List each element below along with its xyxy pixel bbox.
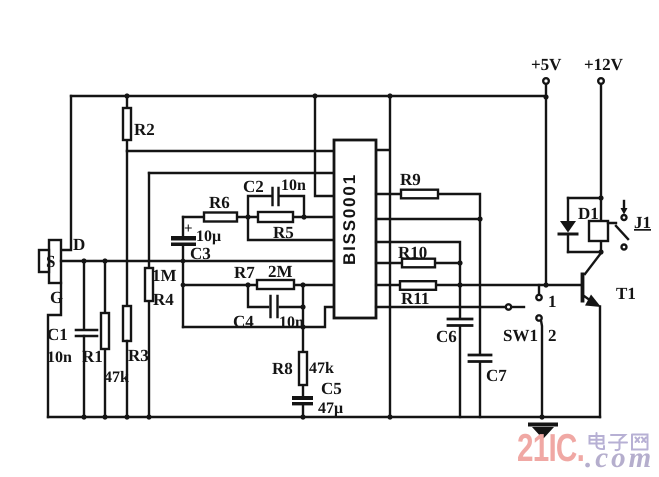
svg-text:+12V: +12V	[584, 55, 624, 74]
diode D1	[559, 198, 599, 252]
svg-text:R4: R4	[153, 290, 174, 309]
wire R7 row	[183, 284, 334, 286]
svg-text:C7: C7	[486, 366, 507, 385]
resistor R3	[123, 306, 149, 417]
node +5V terminal	[531, 55, 562, 285]
svg-text:SW1: SW1	[503, 326, 538, 345]
svg-text:10n: 10n	[279, 314, 304, 331]
watermark 21IC.com logo	[517, 427, 654, 474]
svg-text:R8: R8	[272, 359, 293, 378]
wire rail2 to IC	[127, 150, 334, 152]
svg-text:R7: R7	[234, 263, 255, 282]
resistor R2	[123, 96, 155, 151]
wire from top rail down into IC pin	[315, 96, 334, 196]
resistor R6	[183, 193, 248, 222]
svg-text:R3: R3	[128, 346, 149, 365]
svg-text:+: +	[184, 221, 193, 237]
capacitor C7	[469, 219, 507, 417]
resistor R7 2M	[234, 262, 294, 289]
transistor T1	[581, 253, 636, 417]
svg-text:47k: 47k	[309, 360, 334, 377]
wire IC pin to switch pole	[376, 306, 505, 308]
svg-text:1M: 1M	[152, 266, 177, 285]
svg-text:R1: R1	[82, 347, 103, 366]
resistor R11	[400, 281, 549, 308]
svg-text:10n: 10n	[47, 349, 72, 366]
svg-text:R10: R10	[398, 243, 427, 262]
svg-text:47k: 47k	[104, 369, 129, 386]
relay coil	[568, 195, 608, 254]
resistor R8 47k	[272, 285, 334, 396]
capacitor C3 10u electrolytic	[171, 217, 221, 327]
wire R11 row to transistor base	[376, 284, 581, 286]
ground	[528, 423, 558, 440]
svg-text:J1: J1	[634, 213, 651, 232]
wire rail3 to IC	[149, 172, 334, 174]
PIR sensor body	[39, 235, 85, 307]
svg-text:C3: C3	[190, 244, 211, 263]
capacitor C2 10n	[243, 177, 306, 217]
svg-text:+5V: +5V	[531, 55, 562, 74]
svg-text:S: S	[46, 252, 55, 271]
wire sensor G to ground rail	[48, 283, 61, 417]
op-amp U1 BISS0001	[334, 140, 376, 318]
wire top supply rail	[71, 95, 546, 97]
node +12V terminal	[584, 55, 624, 198]
wire IC pin row 3	[376, 242, 460, 263]
svg-text:BISS0001: BISS0001	[340, 173, 359, 265]
svg-text:C2: C2	[243, 177, 264, 196]
svg-text:T1: T1	[616, 284, 636, 303]
svg-text:R2: R2	[134, 120, 155, 139]
wire ground rail	[48, 416, 600, 418]
node top rail junctions	[124, 93, 548, 99]
capacitor C4 10n	[233, 285, 304, 331]
resistor R5	[248, 212, 334, 242]
wire IC pin row 2	[376, 218, 480, 220]
svg-text:D: D	[73, 235, 85, 254]
node R6/R5/C2	[245, 214, 250, 219]
wire source signal row	[61, 260, 334, 262]
switch SW1	[503, 285, 557, 417]
svg-text:R9: R9	[400, 170, 421, 189]
capacitor C6	[436, 263, 472, 417]
capacitor C1 10n	[47, 261, 97, 417]
svg-text:R11: R11	[401, 289, 429, 308]
svg-text:C6: C6	[436, 327, 457, 346]
svg-text:21IC.: 21IC.	[517, 427, 584, 470]
resistor R1 47k	[82, 261, 129, 417]
svg-text:C1: C1	[47, 325, 68, 344]
wire lower loop to IC notch	[183, 307, 334, 327]
wire R2/R3 column	[126, 151, 128, 306]
capacitor C5 47u electrolytic	[292, 379, 343, 417]
svg-text:10μ: 10μ	[196, 228, 221, 245]
node C4 right	[300, 304, 305, 309]
wire outer left edge to sensor D	[62, 96, 71, 250]
svg-text:2M: 2M	[268, 262, 293, 281]
svg-text:R6: R6	[209, 193, 230, 212]
resistor R9	[376, 170, 480, 219]
relay contact J1	[608, 201, 651, 250]
svg-text:2: 2	[548, 326, 557, 345]
node dots on signal row	[81, 258, 185, 263]
svg-text:10n: 10n	[281, 177, 306, 194]
svg-text:47μ: 47μ	[318, 400, 343, 417]
node ground rail junctions	[81, 414, 544, 419]
wire reference column x390	[376, 96, 390, 417]
svg-text:C5: C5	[321, 379, 342, 398]
resistor R10	[376, 243, 463, 267]
svg-text:.com: .com	[585, 442, 654, 474]
wire lower loop of C2/R5 cell to IC	[248, 217, 334, 240]
svg-text:1: 1	[548, 292, 557, 311]
resistor R4 1M	[145, 173, 177, 417]
